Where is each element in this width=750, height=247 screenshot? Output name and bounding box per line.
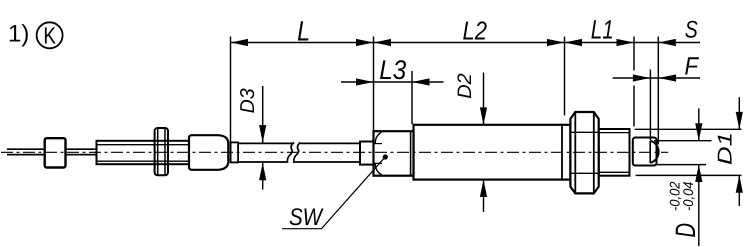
- extension lines dia D1 from thread: [635, 128, 742, 130]
- dimension line D3 lower: [262, 163, 264, 190]
- label D with tolerance -0,02 -0,04 rotated: [666, 181, 701, 237]
- arrowhead D top: [695, 123, 702, 141]
- arrowhead L left: [231, 39, 249, 46]
- svg-text:-0,04: -0,04: [680, 181, 696, 211]
- arrowhead D3 bottom: [259, 163, 266, 181]
- svg-text:L2: L2: [462, 16, 487, 46]
- cable wire segments left end: [7, 149, 97, 154]
- jam hex nut on sleeve: [155, 128, 168, 175]
- rod wire segments: [238, 143, 360, 162]
- extension line at thread end upper part: [633, 37, 635, 71]
- svg-text:D: D: [670, 223, 701, 238]
- arrowhead F left: [633, 74, 651, 81]
- sleeve thread root lines: [97, 144, 190, 146]
- break symbol left curve: [287, 143, 294, 163]
- centerline axis: [1, 151, 668, 153]
- svg-text:D1: D1: [715, 132, 737, 165]
- dimension line D1 vertical: [738, 97, 740, 129]
- svg-text:L1: L1: [591, 14, 614, 44]
- break symbol right curve: [294, 143, 301, 163]
- svg-text:S: S: [685, 17, 698, 44]
- svg-text:D3: D3: [237, 88, 259, 113]
- arrowhead L3 right: [412, 78, 430, 85]
- dimension line D2 upper: [483, 73, 485, 125]
- extension line at thread end lower part: [633, 86, 635, 127]
- extension line at dome base: [649, 70, 651, 141]
- arrowhead D2 bottom: [480, 180, 487, 198]
- arrowhead L1 left: [565, 39, 583, 46]
- dimension line L L2 L1 S shared row: [231, 42, 701, 44]
- svg-text:K: K: [43, 23, 56, 49]
- extension line L3 right: [411, 71, 413, 124]
- arrowhead S right: [658, 39, 676, 46]
- mounting hex nut right: [570, 112, 598, 193]
- dimension line F: [613, 77, 700, 79]
- arrowhead L3 left: [356, 78, 374, 85]
- extension line at pin tip: [657, 37, 659, 145]
- arrowhead L2 right: [547, 39, 565, 46]
- dimension line D3 upper: [262, 86, 264, 143]
- cylinder groove edge: [561, 125, 563, 180]
- arrowhead L1 right and S left: [617, 39, 635, 46]
- leader dot SW: [383, 154, 388, 159]
- arrowhead L right: [356, 39, 374, 46]
- collar at adjuster exit: [231, 142, 239, 162]
- arrowhead D2 top: [480, 107, 487, 125]
- dimension line D vertical: [698, 108, 700, 140]
- svg-text:SW: SW: [289, 204, 324, 231]
- svg-text:1): 1): [8, 21, 29, 48]
- extension line at adjuster face: [230, 37, 232, 144]
- knurled adjuster nut: [189, 135, 228, 170]
- svg-text:D2: D2: [454, 73, 476, 99]
- pin dome tip: [650, 141, 658, 163]
- pin end cap: [633, 138, 659, 166]
- svg-text:F: F: [684, 52, 699, 80]
- cable end clamp block: [45, 138, 66, 167]
- arrowhead D bottom: [695, 165, 702, 183]
- arrowhead D1 bottom: [736, 175, 743, 193]
- keyed symbol K in circle: [37, 22, 63, 48]
- threaded stud right: [599, 129, 630, 176]
- arrowhead F right: [659, 74, 677, 81]
- arrowhead D3 top: [259, 125, 266, 143]
- svg-text:L3: L3: [379, 55, 406, 85]
- arrowhead L2 left: [374, 39, 392, 46]
- threaded adjuster sleeve: [97, 141, 190, 164]
- collar before SW hex: [360, 142, 374, 165]
- dimension line L3: [341, 81, 444, 83]
- SW wrench hex: [374, 131, 414, 176]
- cylinder housing body: [414, 125, 571, 180]
- extension lines dia D from dome: [654, 140, 712, 142]
- svg-text:L: L: [297, 15, 310, 46]
- extension line at cylinder right face: [564, 37, 566, 116]
- dimension line D2 lower: [483, 180, 485, 212]
- extension line at SW hex left face: [373, 37, 375, 131]
- arrowhead D1 top: [736, 112, 743, 129]
- leader line SW: [282, 157, 385, 229]
